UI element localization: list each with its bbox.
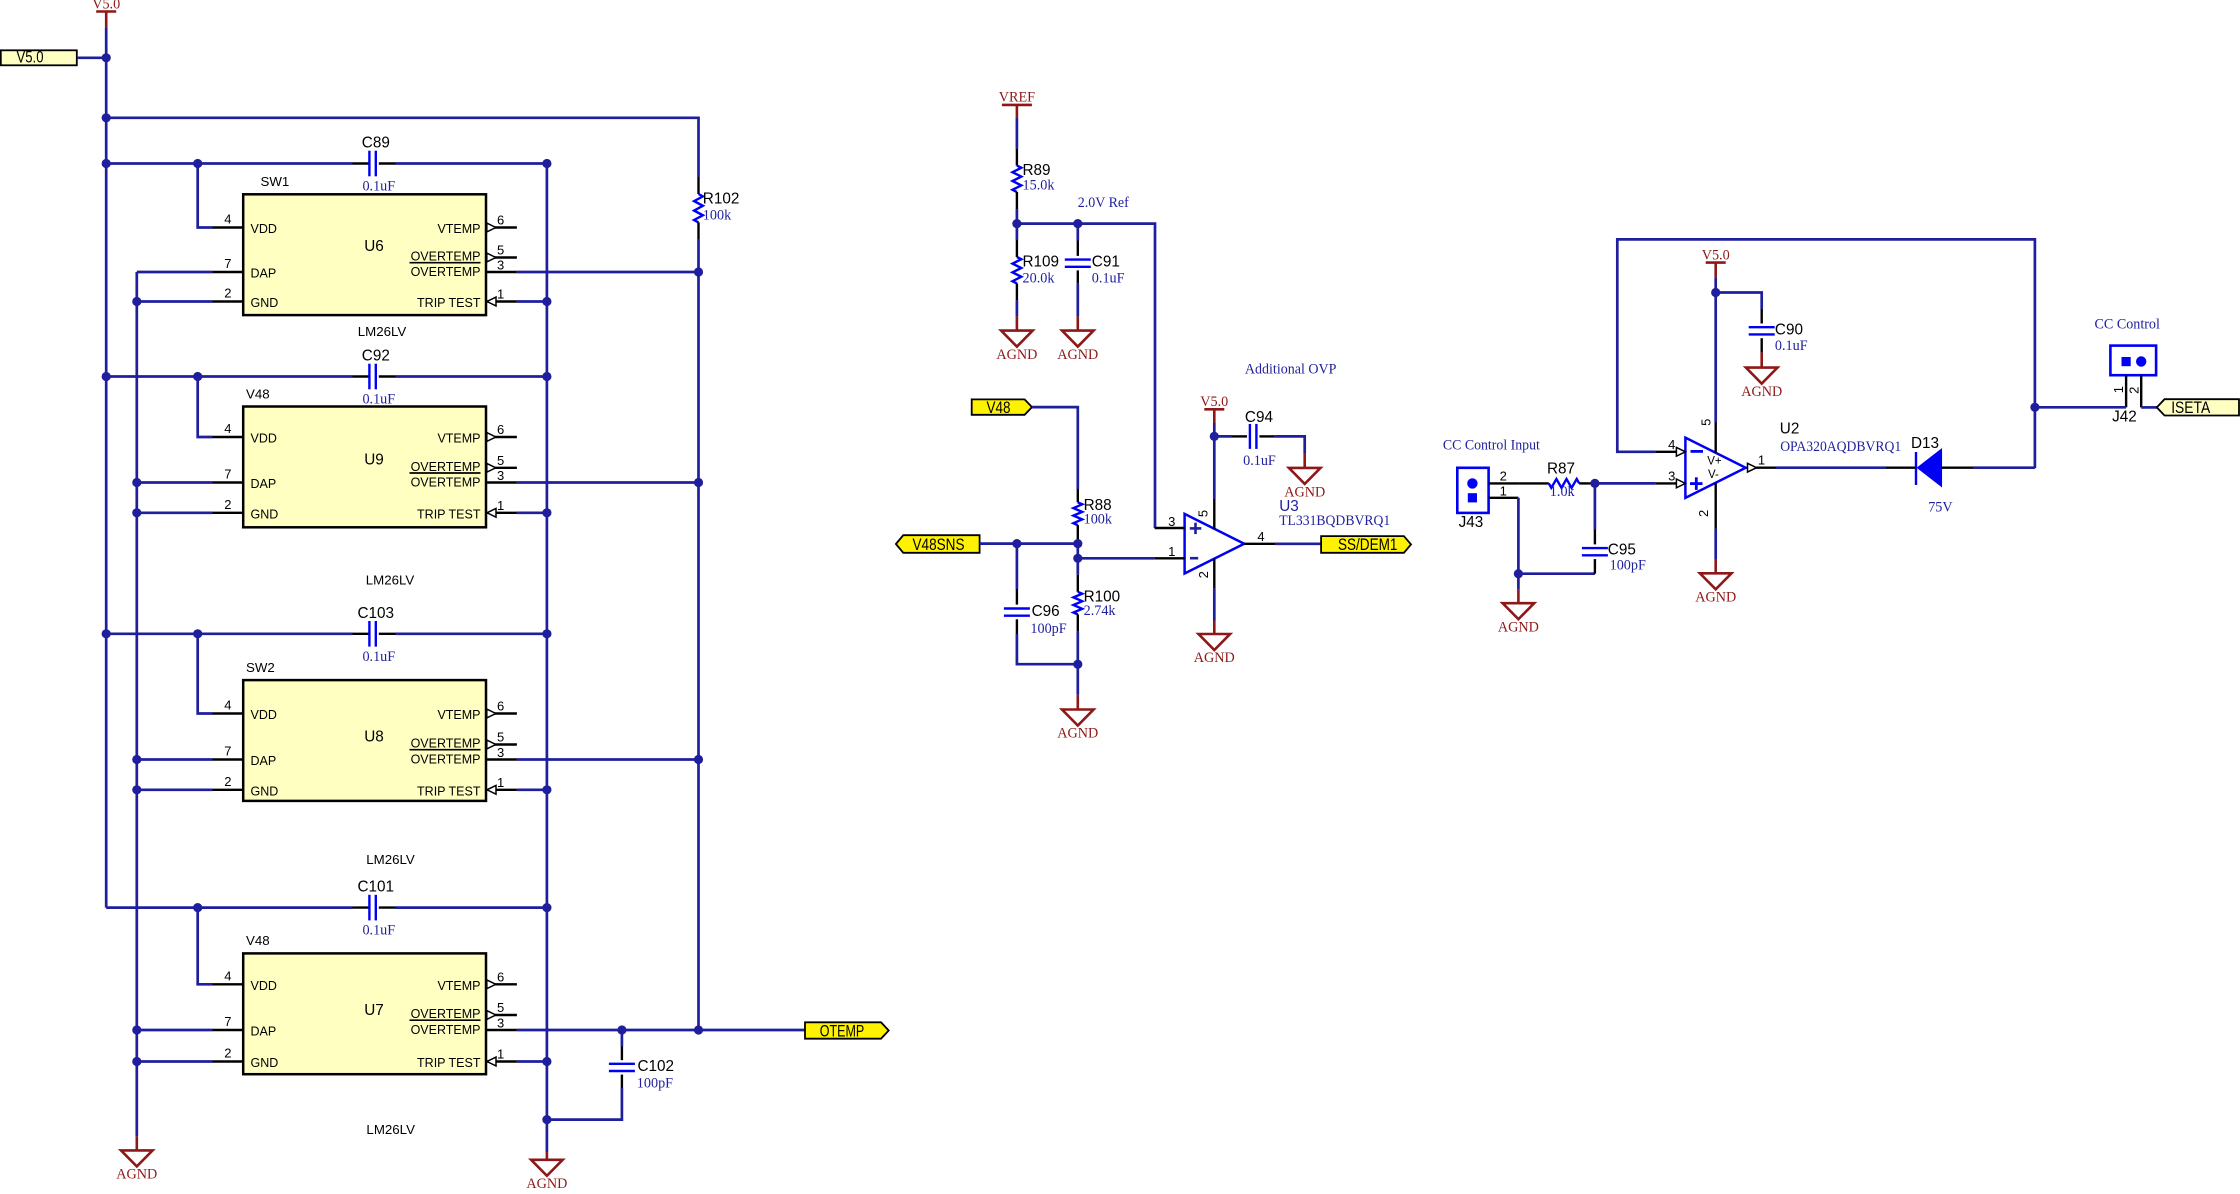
ground AGND (R109) (1016, 316, 1019, 330)
resistor R102 (697, 177, 699, 194)
capacitor C101 (353, 906, 370, 908)
net flag ISETA (2157, 399, 2239, 415)
svg-text:C91: C91 (1092, 254, 1120, 271)
svg-text:4: 4 (1668, 437, 1675, 452)
svg-text:2: 2 (2127, 387, 2142, 394)
capacitor C89 (353, 162, 370, 164)
svg-text:D13: D13 (1911, 435, 1939, 452)
wire V5.0 row for C103 (106, 632, 352, 635)
node cap row / V5.0 rail U8 (102, 629, 111, 638)
svg-text:AGND: AGND (1498, 619, 1539, 635)
svg-text:C103: C103 (358, 605, 395, 622)
svg-text:1: 1 (1758, 452, 1765, 467)
svg-text:6: 6 (497, 422, 504, 437)
svg-text:AGND: AGND (1194, 650, 1235, 666)
svg-text:TRIP TEST: TRIP TEST (417, 1056, 481, 1070)
svg-text:4: 4 (224, 698, 231, 713)
svg-text:VTEMP: VTEMP (437, 708, 480, 722)
power V5.0 (top left) (96, 10, 116, 13)
svg-text:100pF: 100pF (1610, 558, 1646, 574)
connector J42 (2110, 346, 2156, 376)
svg-text:7: 7 (224, 1014, 231, 1029)
node V48SNS/C96 (1012, 539, 1021, 548)
svg-text:3: 3 (497, 745, 504, 760)
pin 1 J43 (1489, 497, 1519, 499)
IC U6 LM26LV body (243, 194, 486, 315)
svg-text:0.1uF: 0.1uF (362, 923, 395, 939)
node V48SNS/R88 (1073, 539, 1082, 548)
node TRIP/AGND rail U7 (542, 1057, 551, 1066)
svg-text:V5.0: V5.0 (92, 0, 120, 12)
node cap row / V5.0 rail U6 (102, 159, 111, 168)
svg-text:OVERTEMP: OVERTEMP (411, 460, 481, 474)
pin 7 DAP U9 (213, 481, 244, 483)
svg-text:0.1uF: 0.1uF (1775, 338, 1808, 354)
capacitor C103 (353, 633, 370, 635)
ground AGND (C91) (1077, 316, 1080, 330)
svg-text:VTEMP: VTEMP (437, 979, 480, 993)
svg-text:2: 2 (224, 1046, 231, 1061)
svg-text:AGND: AGND (1695, 590, 1736, 606)
svg-text:2: 2 (224, 286, 231, 301)
svg-text:GND: GND (251, 507, 279, 521)
svg-text:100pF: 100pF (637, 1076, 673, 1092)
node C102 top (617, 1025, 626, 1034)
svg-text:1: 1 (497, 287, 504, 302)
wire DAP U9 (137, 481, 213, 484)
svg-text:OVERTEMP: OVERTEMP (411, 265, 481, 279)
capacitor C102 (621, 1030, 624, 1047)
svg-text:2.74k: 2.74k (1084, 603, 1117, 619)
node divider/U3 pin1 (1073, 554, 1082, 563)
svg-text:20.0k: 20.0k (1023, 271, 1056, 287)
svg-text:0.1uF: 0.1uF (362, 649, 395, 665)
node R87/C95 (1590, 479, 1599, 488)
pin 5 OVERTEMP U6 (486, 256, 517, 258)
svg-text:V48: V48 (246, 386, 270, 401)
wire top V5.0 feed to R102 (106, 118, 698, 177)
node J43 pin1 / C95 bottom (1514, 569, 1523, 578)
node cap row / VDD drop U6 (193, 159, 202, 168)
svg-text:2: 2 (224, 774, 231, 789)
svg-text:4: 4 (224, 968, 231, 983)
node V5.0/C90/pin5 U2 (1711, 288, 1720, 297)
pin 4 U3 output (1244, 543, 1275, 545)
pin 3 U3 (1155, 527, 1185, 529)
svg-text:2: 2 (224, 497, 231, 512)
svg-text:1: 1 (1168, 544, 1175, 559)
IC U8 LM26LV body (243, 680, 486, 801)
resistor R100 (1076, 558, 1079, 575)
svg-text:R87: R87 (1547, 461, 1575, 478)
wire TRIP TEST U8 to AGND rail (517, 788, 547, 791)
svg-text:0.1uF: 0.1uF (1243, 453, 1276, 469)
svg-text:2.0V Ref: 2.0V Ref (1078, 195, 1129, 211)
svg-text:DAP: DAP (251, 1025, 277, 1039)
svg-text:V+: V+ (1707, 456, 1722, 468)
svg-text:R89: R89 (1023, 162, 1051, 179)
node cap row / VDD drop U9 (193, 372, 202, 381)
wire J42 pin1 to feedback (2035, 406, 2126, 409)
connector J43 (1457, 468, 1488, 513)
pin 5 U3 (1213, 436, 1216, 499)
svg-text:VTEMP: VTEMP (437, 222, 480, 236)
node R100/C96 bottom (1073, 660, 1082, 669)
ground AGND (C90) (1760, 352, 1763, 367)
node DAP rail (132, 785, 141, 794)
svg-text:0.1uF: 0.1uF (362, 179, 395, 195)
svg-text:C96: C96 (1032, 603, 1060, 620)
wire divider to U3 pin1 (1076, 544, 1079, 559)
svg-text:CC Control Input: CC Control Input (1443, 438, 1540, 454)
svg-text:TRIP TEST: TRIP TEST (417, 784, 481, 798)
node cap row / V5.0 rail U9 (102, 372, 111, 381)
capacitor C94 (1214, 435, 1232, 438)
svg-text:U6: U6 (364, 238, 384, 255)
svg-text:4: 4 (224, 421, 231, 436)
pin 2 J42 (2140, 375, 2142, 407)
wire TRIP TEST U6 to AGND rail (517, 300, 547, 303)
svg-text:3: 3 (1668, 468, 1675, 483)
pin 6 VTEMP U6 (486, 226, 517, 228)
svg-text:C92: C92 (362, 348, 390, 365)
wire GND U8 (137, 788, 213, 791)
node C101 row / AGND rail (542, 903, 551, 912)
IC U9 LM26LV body (243, 407, 486, 528)
wire DAP U7 (137, 1029, 213, 1032)
node cap row / AGND rail U6 (542, 159, 551, 168)
wire GND U7 (137, 1060, 213, 1063)
svg-text:OVERTEMP: OVERTEMP (411, 737, 481, 751)
svg-text:0.1uF: 0.1uF (1092, 271, 1125, 287)
node cap row / VDD drop U7 (193, 903, 202, 912)
svg-text:V48: V48 (987, 399, 1011, 417)
svg-text:6: 6 (497, 213, 504, 228)
pin 1 TRIP TEST U9 (486, 512, 517, 514)
svg-text:7: 7 (224, 744, 231, 759)
svg-text:2: 2 (1696, 510, 1711, 517)
net flag V48 (972, 399, 1032, 414)
svg-text:5: 5 (1699, 419, 1714, 426)
wire V48 to R88 (1032, 407, 1078, 489)
node cap row / AGND rail U8 (542, 629, 551, 638)
wire VDD drop U7 (198, 908, 213, 985)
pin 6 VTEMP U8 (486, 712, 517, 714)
net flag SS/DEM1 (1321, 536, 1411, 553)
svg-text:V5.0: V5.0 (17, 48, 44, 66)
ground AGND (right bottom) (546, 1152, 549, 1160)
wire DAP/GND rail (left) (135, 272, 138, 1136)
svg-text:AGND: AGND (1741, 384, 1782, 400)
wire V5.0 label to rail (77, 56, 106, 59)
wire OVERTEMP pin3 U9 to rail (517, 481, 699, 484)
svg-text:VDD: VDD (251, 222, 277, 236)
svg-text:SW1: SW1 (261, 174, 290, 189)
pin 2 GND U7 (213, 1060, 244, 1062)
svg-text:C90: C90 (1775, 322, 1803, 339)
pin 1 TRIP TEST U7 (486, 1060, 517, 1062)
IC U7 LM26LV body (243, 953, 486, 1074)
capacitor C95 (1594, 483, 1597, 529)
svg-text:V5.0: V5.0 (1200, 394, 1228, 410)
svg-text:V48: V48 (246, 933, 270, 948)
pin 4 VDD U8 (213, 712, 244, 714)
wire U2 out to D13 (1776, 466, 1886, 469)
svg-text:DAP: DAP (251, 477, 277, 491)
node pin3 rail U6 (694, 267, 703, 276)
wire J42 pin2 to ISETA (2141, 406, 2157, 409)
resistor R87 (1518, 482, 1548, 484)
resistor R109 (1016, 224, 1019, 240)
svg-text:6: 6 (497, 699, 504, 714)
svg-text:75V: 75V (1928, 500, 1953, 516)
svg-text:U2: U2 (1780, 421, 1800, 438)
diode D13 75V (1886, 467, 1916, 469)
node V5.0/label junction (102, 53, 111, 62)
pin 4 VDD U9 (213, 436, 244, 438)
svg-text:GND: GND (251, 296, 279, 310)
wire OVERTEMP pin3 U6 to rail (517, 271, 699, 274)
node DAP rail (132, 508, 141, 517)
pin 3 U2 (1655, 482, 1676, 484)
svg-text:C102: C102 (638, 1058, 675, 1075)
svg-text:DAP: DAP (251, 754, 277, 768)
capacitor C90 (1716, 293, 1762, 310)
node pin3/R102 rail U7 (694, 1025, 703, 1034)
pin 1 U2 output (1747, 467, 1777, 469)
wire R89 to 2.0V Ref node (1016, 209, 1019, 224)
svg-text:LM26LV: LM26LV (366, 852, 415, 867)
svg-text:R102: R102 (703, 191, 740, 208)
wire V5.0 row for C92 (106, 375, 352, 378)
svg-text:R109: R109 (1023, 254, 1060, 271)
pin 3 /OVERTEMP U7 (486, 1029, 517, 1031)
node 2.0V ref / C91 (1073, 219, 1082, 228)
wire VDD drop U8 (198, 634, 213, 714)
svg-text:TL331BQDBVRQ1: TL331BQDBVRQ1 (1279, 513, 1390, 529)
svg-text:GND: GND (251, 784, 279, 798)
pin 5 OVERTEMP U8 (486, 743, 517, 745)
wire R87 to U3 pin3 (1592, 482, 1655, 485)
capacitor C91 (1076, 224, 1079, 241)
svg-text:AGND: AGND (116, 1167, 157, 1183)
wire AGND rail (right of chips) (546, 164, 549, 1153)
ground AGND (J43) (1517, 574, 1520, 590)
pin 7 DAP U7 (213, 1029, 244, 1031)
svg-text:3: 3 (1168, 514, 1175, 529)
ground AGND (U3) (1213, 621, 1216, 635)
capacitor C92 (353, 375, 370, 377)
power V5.0 (U3) (1204, 408, 1224, 411)
svg-text:C95: C95 (1608, 542, 1636, 559)
net flag OTEMP (805, 1022, 889, 1038)
node TRIP/AGND rail U6 (542, 297, 551, 306)
node V5.0/top-feed junction (102, 113, 111, 122)
pin 7 DAP U8 (213, 758, 244, 760)
svg-text:ISETA: ISETA (2171, 399, 2210, 417)
pin 4 VDD U7 (213, 983, 244, 985)
svg-text:7: 7 (224, 467, 231, 482)
svg-text:GND: GND (251, 1056, 279, 1070)
wire GND U6 (137, 300, 213, 303)
svg-text:OPA320AQDBVRQ1: OPA320AQDBVRQ1 (1780, 439, 1901, 455)
node V5.0/C94/pin5 (1210, 432, 1219, 441)
ground AGND (U2) (1714, 559, 1717, 573)
node TRIP/AGND rail U8 (542, 785, 551, 794)
wire OVERTEMP pin3 U8 to rail (517, 758, 699, 761)
svg-text:U7: U7 (364, 1002, 384, 1019)
svg-text:Additional OVP: Additional OVP (1245, 361, 1337, 377)
svg-text:1: 1 (497, 1047, 504, 1062)
pin 3 /OVERTEMP U6 (486, 271, 517, 273)
wire feedback loop U2 (1617, 239, 2035, 468)
wire DAP U8 (137, 758, 213, 761)
svg-text:5: 5 (497, 1000, 504, 1015)
wire VDD drop U9 (198, 377, 213, 438)
pin 2 U2 (1714, 483, 1716, 529)
svg-text:5: 5 (497, 243, 504, 258)
svg-text:1: 1 (497, 775, 504, 790)
svg-text:V5.0: V5.0 (1702, 247, 1730, 263)
svg-text:OVERTEMP: OVERTEMP (411, 1007, 481, 1021)
pin 6 VTEMP U9 (486, 436, 517, 438)
svg-text:OVERTEMP: OVERTEMP (411, 476, 481, 490)
svg-text:V-: V- (1708, 469, 1719, 481)
wire TRIP TEST U7 to AGND rail (517, 1060, 547, 1063)
svg-text:5: 5 (497, 453, 504, 468)
node DAP rail (132, 755, 141, 764)
svg-text:LM26LV: LM26LV (358, 324, 407, 339)
node TRIP/AGND rail U9 (542, 508, 551, 517)
svg-text:100k: 100k (703, 207, 732, 223)
wire 2.0V Ref row (1017, 224, 1155, 528)
wire OVERTEMP pin3 U7 to OTEMP (517, 1029, 805, 1032)
svg-text:OVERTEMP: OVERTEMP (411, 1023, 481, 1037)
svg-text:0.1uF: 0.1uF (362, 392, 395, 408)
svg-text:VREF: VREF (999, 90, 1035, 106)
wire J43 pin1 down (1518, 498, 1595, 574)
wire V5.0 row for C101 (106, 906, 352, 909)
svg-text:U9: U9 (364, 452, 384, 469)
svg-text:TRIP TEST: TRIP TEST (417, 507, 481, 521)
wire D13 to feedback corner (1973, 466, 2035, 469)
svg-text:100k: 100k (1084, 512, 1113, 528)
wire DAP U6 (137, 271, 213, 274)
svg-text:1: 1 (2111, 386, 2126, 393)
svg-text:LM26LV: LM26LV (366, 573, 415, 588)
svg-text:SW2: SW2 (246, 660, 275, 675)
pin 7 DAP U6 (213, 271, 244, 273)
svg-text:J42: J42 (2112, 409, 2137, 426)
svg-text:5: 5 (497, 730, 504, 745)
svg-text:2: 2 (1500, 468, 1507, 483)
svg-text:1: 1 (497, 498, 504, 513)
wire V5.0 rail (vertical) (105, 28, 108, 908)
op-amp U2 OPA320AQDBVRQ1 (1685, 438, 1745, 498)
node pin3 rail U8 (694, 755, 703, 764)
node cap row / VDD drop U8 (193, 629, 202, 638)
pin 5 OVERTEMP U7 (486, 1014, 517, 1016)
svg-text:OTEMP: OTEMP (820, 1022, 865, 1040)
node DAP rail (132, 1057, 141, 1066)
svg-text:CC Control: CC Control (2095, 317, 2160, 333)
pin 3 /OVERTEMP U9 (486, 481, 517, 483)
pin 2 GND U9 (213, 512, 244, 514)
svg-text:VDD: VDD (251, 708, 277, 722)
pin 2 J43 (1489, 482, 1519, 484)
power V5.0 (U2) (1706, 261, 1726, 264)
pin 5 OVERTEMP U9 (486, 467, 517, 469)
svg-text:SS/DEM1: SS/DEM1 (1338, 536, 1398, 554)
svg-text:OVERTEMP: OVERTEMP (411, 250, 481, 264)
pin 4 VDD U6 (213, 226, 244, 228)
svg-text:V48SNS: V48SNS (913, 536, 965, 554)
node DAP rail (132, 478, 141, 487)
wire V5.0 row for C89 (106, 162, 352, 165)
ground AGND (C94) (1303, 453, 1306, 468)
pin 2 GND U8 (213, 789, 244, 791)
resistor R88 (1077, 489, 1079, 502)
svg-text:15.0k: 15.0k (1023, 178, 1056, 194)
svg-text:7: 7 (224, 256, 231, 271)
pin 1 J42 (2125, 375, 2127, 407)
wire TRIP TEST U9 to AGND rail (517, 511, 547, 514)
wire to AGND (divider) (1076, 664, 1079, 695)
svg-text:LM26LV: LM26LV (366, 1122, 415, 1137)
pin 3 /OVERTEMP U8 (486, 758, 517, 760)
svg-text:C89: C89 (362, 135, 390, 152)
svg-text:C94: C94 (1245, 409, 1274, 426)
pin 6 VTEMP U7 (486, 983, 517, 985)
svg-text:TRIP TEST: TRIP TEST (417, 296, 481, 310)
svg-text:VDD: VDD (251, 432, 277, 446)
svg-text:VTEMP: VTEMP (437, 432, 480, 446)
node DAP rail (132, 1025, 141, 1034)
pin 2 GND U6 (213, 300, 244, 302)
svg-text:3: 3 (497, 258, 504, 273)
comparator U3 TL331BQDBVRQ1 (1185, 514, 1245, 574)
pin 1 U3 (1155, 557, 1185, 559)
svg-text:100pF: 100pF (1030, 621, 1066, 637)
svg-text:5: 5 (1196, 510, 1211, 517)
ground AGND (left bottom) (136, 1136, 139, 1150)
wire U3 out to SS/DEM1 (1275, 542, 1321, 545)
node cap row / AGND rail U9 (542, 372, 551, 381)
wire VDD drop U6 (198, 164, 213, 228)
pin 5 U2 (1714, 293, 1717, 423)
node DAP rail (132, 297, 141, 306)
resistor R89 (1016, 149, 1018, 166)
svg-text:AGND: AGND (996, 347, 1037, 363)
svg-text:AGND: AGND (1057, 726, 1098, 742)
svg-text:U8: U8 (364, 729, 384, 746)
svg-text:4: 4 (1257, 529, 1264, 544)
net flag V48SNS (896, 535, 980, 553)
power VREF (1002, 104, 1032, 107)
svg-text:2: 2 (1196, 571, 1211, 578)
wire GND U9 (137, 511, 213, 514)
svg-text:3: 3 (497, 468, 504, 483)
svg-text:4: 4 (224, 212, 231, 227)
pin 1 TRIP TEST U6 (486, 300, 517, 302)
svg-text:1: 1 (1500, 483, 1507, 498)
node 2.0V ref / R109 (1012, 219, 1021, 228)
svg-text:C101: C101 (358, 879, 395, 896)
wire R102 to OTEMP rail (697, 239, 700, 1030)
pin 4 U2 (1655, 451, 1676, 453)
node feedback/J42 row (2030, 403, 2039, 412)
svg-text:1.0k: 1.0k (1550, 484, 1576, 500)
